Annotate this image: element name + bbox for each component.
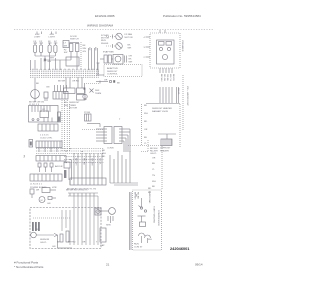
compartment dashed right2 [179, 104, 181, 148]
svg-text:RD: RD [102, 156, 106, 158]
lamp E2 [40, 43, 44, 57]
connector block J1 [53, 92, 68, 100]
icemaker enclosure [150, 33, 180, 68]
relay K2b [77, 95, 86, 101]
fuse F1 [29, 140, 33, 148]
motor condenser fan [31, 78, 40, 102]
svg-text:BU: BU [152, 163, 155, 165]
lamp E4 [54, 43, 58, 57]
svg-text:COM ST: COM ST [134, 247, 143, 249]
wire bus2 L6 [64, 162, 104, 164]
label TH2 [96, 208, 111, 227]
lamp E1 [34, 43, 38, 57]
svg-text:RD-BK: RD-BK [83, 158, 85, 165]
svg-text:RD-BK: RD-BK [137, 192, 139, 199]
svg-text:BK-WH: BK-WH [160, 74, 162, 82]
thermostat TH2 [98, 208, 115, 223]
svg-text:SWITCH: SWITCH [70, 39, 79, 41]
label light switch block [63, 41, 69, 55]
svg-text:MOTOR: MOTOR [125, 37, 134, 39]
heater HL [95, 208, 101, 215]
svg-text:DEFROST: DEFROST [69, 102, 80, 104]
heater H1 [158, 134, 176, 146]
svg-text:LIGHT: LIGHT [49, 37, 56, 39]
svg-text:RD-GN: RD-GN [163, 74, 165, 82]
svg-text:OR: OR [129, 56, 133, 58]
label evap feeders [88, 47, 96, 51]
svg-text:21: 21 [106, 263, 110, 267]
svg-text:HEATER: HEATER [160, 149, 169, 152]
svg-text:GN: GN [52, 246, 56, 248]
svg-text:WH: WH [102, 153, 106, 155]
wire control bracket [96, 63, 104, 75]
wire dashed quad [62, 100, 70, 152]
lamp E3 [48, 43, 52, 57]
wire bus2 L2 [36, 150, 104, 152]
svg-text:CONN: CONN [107, 148, 114, 150]
label lamp pair2 [48, 41, 57, 43]
wire cluster link [82, 124, 104, 130]
wire cascade [110, 151, 138, 185]
terminal strip T2 [36, 141, 62, 148]
wire cross join [146, 103, 180, 105]
svg-text:BK-WH: BK-WH [134, 192, 136, 200]
terminal block TB [32, 222, 40, 231]
svg-text:M: M [41, 200, 43, 202]
svg-text:# Functional Parts: # Functional Parts [14, 261, 39, 265]
switch S2 [38, 163, 41, 172]
svg-text:EVAP FAN: EVAP FAN [103, 51, 114, 54]
svg-text:WH: WH [152, 181, 156, 183]
capacitor box [100, 55, 111, 63]
svg-text:CAP: CAP [100, 244, 105, 247]
drain plug [83, 94, 87, 99]
label cascade [102, 150, 106, 158]
label device row [36, 187, 57, 192]
svg-text:GN: GN [83, 51, 87, 53]
control housing [29, 106, 59, 123]
svg-text:LIGHT: LIGHT [34, 37, 41, 39]
compressor enclosure [133, 190, 162, 250]
label bottom codes [57, 242, 98, 244]
wire control stub [96, 80, 115, 83]
wire bus L1 [30, 69, 99, 71]
svg-text:OR: OR [104, 80, 108, 82]
svg-text:1 2 3 4 5: 1 2 3 4 5 [40, 135, 49, 137]
svg-text:ICE + WATER DISP: ICE + WATER DISP [186, 86, 189, 106]
wire gn drop [58, 235, 73, 248]
resistor R1 [60, 234, 63, 242]
compartment dashed left [141, 104, 143, 146]
wire dotted link mid [84, 81, 100, 94]
wire bus2 L3 [36, 153, 104, 155]
svg-text:GN-YL: GN-YL [150, 153, 157, 155]
label heater cluster [152, 107, 172, 113]
label cond fan text [29, 102, 44, 106]
wire evap feeders [89, 48, 98, 70]
svg-text:242046001: 242046001 [170, 246, 190, 251]
label FF lights [34, 32, 42, 39]
svg-text:OR-BU: OR-BU [166, 74, 168, 81]
wire dashed drop [80, 42, 82, 70]
label FZ lights [49, 32, 57, 39]
wire icemaker drops [160, 68, 172, 73]
wire top ticks [68, 193, 98, 196]
switch S3 [44, 163, 47, 172]
svg-text:RUN: RUN [134, 244, 139, 246]
label thermostat [95, 90, 101, 95]
wire band ticks [33, 69, 97, 70]
wire lamp bus [35, 56, 55, 60]
label control board [107, 67, 118, 76]
svg-text:OR: OR [152, 158, 156, 160]
wire exit right [122, 129, 130, 152]
svg-text:MOTOR: MOTOR [69, 108, 78, 110]
wire harness verticals [62, 196, 98, 245]
label left small [64, 102, 68, 107]
label under band [58, 81, 79, 83]
wire entry left [96, 129, 104, 141]
svg-text:RD: RD [148, 188, 152, 190]
svg-text:GN: GN [46, 87, 50, 89]
svg-text:RADIANT 450W: RADIANT 450W [152, 110, 169, 113]
svg-text:CONTROL: CONTROL [107, 74, 118, 76]
wire bus L2 [30, 71, 99, 73]
wire drops to relays [66, 77, 82, 88]
svg-text:DEFROST: DEFROST [107, 71, 118, 73]
svg-text:DR: DR [36, 190, 40, 192]
svg-text:BK WH: BK WH [58, 81, 66, 83]
wire code dash [161, 146, 163, 190]
svg-text:Publication No. 5995544584: Publication No. 5995544584 [163, 14, 201, 18]
svg-text:HTR: HTR [52, 187, 57, 189]
wire bus2 L5 [64, 159, 104, 161]
svg-text:WH RD: WH RD [68, 242, 76, 244]
svg-text:START WINDING: START WINDING [153, 206, 156, 224]
label code column [150, 148, 158, 188]
wire feeders into bus [31, 56, 61, 70]
compartment outline [30, 208, 101, 249]
wire bus L5 [30, 76, 99, 78]
label door switch [70, 36, 79, 41]
label lamp pair1 [34, 41, 43, 43]
label icemaker pins [144, 37, 146, 59]
wire bus2 L4 [64, 156, 104, 158]
label probe text [40, 239, 50, 244]
header rule [14, 29, 214, 31]
motor M3 mount [111, 55, 126, 65]
wire switch to bus [76, 52, 78, 71]
svg-text:TN: TN [152, 175, 155, 177]
motor M2 [106, 43, 122, 50]
label stub [104, 80, 120, 85]
resistor R2 [66, 231, 69, 242]
svg-text:* Non-Illustrated Parts: * Non-Illustrated Parts [14, 265, 44, 269]
thermistor probe [31, 232, 58, 238]
label drop codes [160, 74, 179, 95]
label mid right marks [148, 188, 152, 241]
wire comp feed [130, 192, 132, 250]
wire drop group [160, 87, 179, 103]
wire hatch into J1 [55, 85, 67, 92]
compressor motor windings [139, 233, 151, 243]
svg-text:TERM: TERM [95, 93, 101, 95]
wire bus2 L1 [36, 148, 104, 150]
svg-text:SENSOR: SENSOR [40, 239, 50, 241]
run capacitor [100, 228, 106, 247]
svg-text:OR RD: OR RD [72, 81, 79, 83]
icemaker module [157, 40, 175, 64]
node BK label [83, 45, 87, 53]
wire bus L4 [30, 74, 99, 76]
wire heater dashed corner [141, 140, 148, 152]
svg-text:P2 BK: P2 BK [84, 112, 91, 114]
plug P1 [44, 92, 48, 101]
label center codes [75, 158, 101, 166]
svg-text:WH: WH [83, 48, 87, 50]
label evap fan [103, 51, 114, 54]
junction dots grid [66, 148, 87, 163]
loop outline [66, 57, 79, 66]
terminal strip T3 [36, 156, 66, 162]
switch S4 [50, 163, 53, 172]
motor DM [39, 197, 56, 206]
fuse F2 [64, 170, 66, 178]
label comp top [134, 191, 152, 204]
label timer text [69, 102, 80, 110]
terminal strip T4 [30, 174, 62, 181]
wire code dash top [128, 145, 162, 147]
label harness codes [0, 0, 1, 1]
connector CN2 [114, 127, 122, 144]
junction lamp common [44, 59, 51, 64]
svg-text:GN-YL: GN-YL [40, 242, 47, 244]
svg-text:COLD CTRL: COLD CTRL [40, 138, 53, 140]
switch S1 [46, 43, 79, 61]
svg-text:GN-YL: GN-YL [177, 88, 179, 95]
svg-text:BU: BU [144, 137, 147, 139]
wire verticals center [74, 153, 102, 179]
svg-text:ADAPTIVE: ADAPTIVE [107, 67, 118, 70]
control board enclosure [104, 65, 142, 77]
svg-text:TIMER: TIMER [69, 105, 76, 107]
compartment dashed right [183, 75, 189, 130]
svg-text:GN-YL: GN-YL [99, 158, 101, 165]
label rpm [125, 33, 134, 50]
switch S5 [30, 189, 34, 198]
svg-text:OR: OR [88, 47, 90, 51]
svg-text:WH: WH [148, 239, 152, 241]
svg-text:OR: OR [144, 129, 148, 131]
label strip T1 [40, 135, 53, 140]
svg-text:BK-RD: BK-RD [172, 74, 174, 81]
label fz fan [101, 34, 110, 45]
svg-text:BK WH RD OR BU YL: BK WH RD OR BU YL [66, 190, 89, 192]
svg-text:WH-YL: WH-YL [169, 74, 171, 82]
svg-text:DEFROST HEATER: DEFROST HEATER [152, 107, 172, 110]
relay PTC [138, 216, 146, 227]
svg-text:WH: WH [129, 62, 133, 64]
relay K2 [77, 88, 86, 94]
svg-text:GN: GN [47, 203, 51, 205]
connector CN1 [104, 127, 112, 144]
svg-text:EFHS32-09FB: EFHS32-09FB [95, 14, 115, 18]
plug cross mark [84, 88, 94, 93]
svg-text:RD: RD [144, 121, 148, 123]
svg-text:OR-WH: OR-WH [91, 158, 93, 166]
label M3 right [129, 56, 133, 64]
wire bus L3 [30, 73, 99, 75]
motor M1 [106, 33, 122, 40]
relay K3 [64, 162, 70, 168]
label left dash codes [144, 105, 148, 145]
svg-text:OR: OR [82, 242, 86, 244]
svg-text:WH: WH [128, 48, 132, 50]
label compressor parts [134, 206, 156, 249]
svg-text:BK-WH: BK-WH [75, 158, 77, 166]
svg-text:AIR DR: AIR DR [55, 165, 63, 168]
terminal strip T1 [38, 124, 58, 131]
svg-text:WH: WH [144, 113, 148, 115]
svg-text:COMPRESSOR: COMPRESSOR [157, 210, 159, 226]
svg-text:FZ FAN: FZ FAN [101, 34, 109, 37]
wire icemaker feed [146, 30, 166, 57]
switch S6 [42, 188, 56, 193]
wire strip leads [39, 148, 57, 153]
svg-text:WH: WH [50, 58, 54, 60]
relay K1 [64, 88, 76, 94]
cold control CT [58, 112, 61, 122]
wire riser right [69, 160, 72, 180]
svg-text:09/14: 09/14 [195, 263, 203, 267]
svg-text:DEFROST: DEFROST [160, 148, 171, 150]
svg-text:WH: WH [94, 47, 96, 51]
svg-text:WH-BK: WH-BK [101, 43, 109, 45]
svg-text:FZ FAN: FZ FAN [125, 33, 133, 36]
svg-text:DEF: DEF [95, 90, 100, 92]
svg-text:ICEMAKER: ICEMAKER [181, 40, 184, 52]
svg-text:SEN: SEN [106, 225, 111, 227]
svg-text:L1 N 4 3 2 1: L1 N 4 3 2 1 [30, 184, 43, 186]
label heater below [160, 148, 171, 153]
terminal strip T5 [70, 178, 106, 185]
svg-text:WIRING DIAGRAM: WIRING DIAGRAM [87, 24, 114, 28]
connector cluster mid [84, 112, 91, 121]
svg-text:CC: CC [42, 109, 46, 111]
overload OL [139, 198, 147, 212]
